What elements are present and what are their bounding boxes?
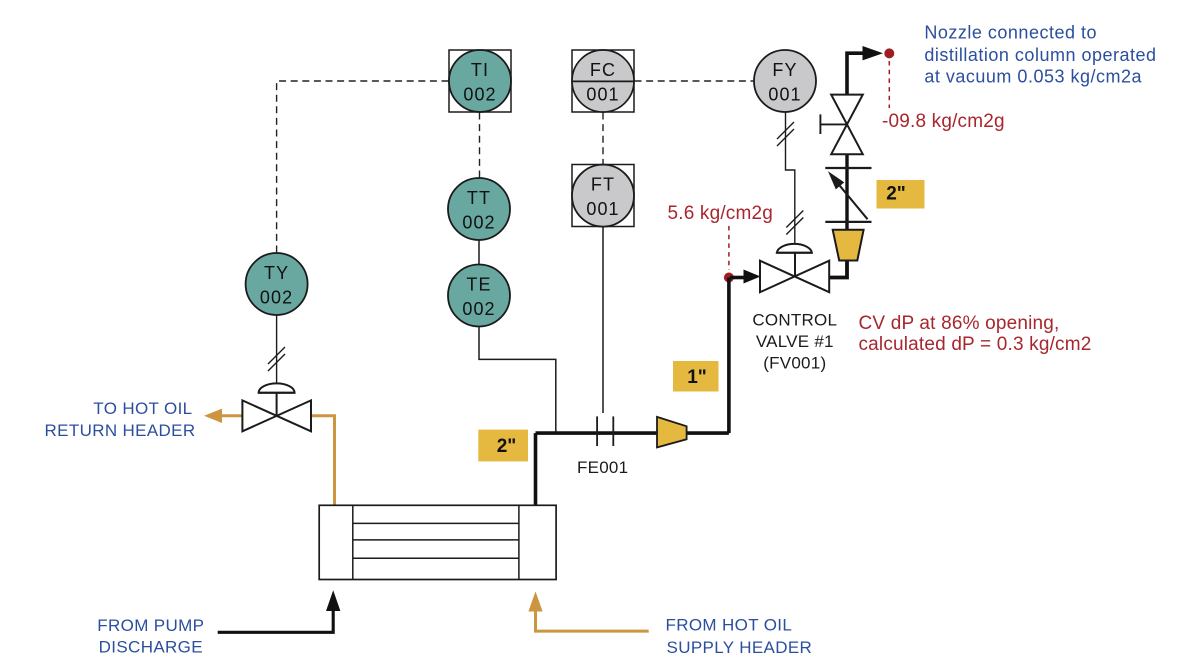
- gate valve V1 (vertical bowtie): [831, 95, 863, 155]
- TY valve actuator stem: [276, 393, 278, 416]
- svg-text:1": 1": [687, 367, 707, 388]
- instrument square TI002: [449, 50, 511, 112]
- svg-text:VALVE #1: VALVE #1: [756, 332, 834, 351]
- exchanger tube line 2: [353, 539, 519, 541]
- node upstream of FV001 (red dot): [724, 273, 734, 283]
- pipe horizontal FE001 run: [536, 431, 729, 435]
- size label 1in: [673, 361, 719, 392]
- size label 2in (left): [478, 430, 528, 462]
- wire TE002 to process pipe: [479, 327, 556, 433]
- FV001 actuator diaphragm: [777, 244, 812, 253]
- pipe reducer to FV001 outlet elbow: [829, 261, 847, 278]
- orifice flange FE001 right: [612, 416, 614, 446]
- flange tick upper (restrictor): [825, 167, 871, 169]
- svg-text:(FV001): (FV001): [763, 354, 826, 373]
- signal break slashes on FY stem upper: [777, 122, 794, 146]
- size label 2in (top right): [877, 180, 925, 209]
- flow nozzle (gold) on FE001 run: [657, 417, 687, 448]
- pump discharge pipe (black) with arrow: [218, 610, 334, 632]
- svg-text:FE001: FE001: [577, 458, 628, 477]
- exchanger tube line 3: [353, 557, 519, 559]
- signal stem FY001 to FV001 actuator: [786, 112, 795, 243]
- exchanger tube line 1: [353, 522, 519, 524]
- signal line FC001 to FY001 (dashed): [635, 80, 755, 82]
- svg-text:TO HOT OIL: TO HOT OIL: [93, 399, 192, 418]
- red dashed leader 5.6 kg/cm2g: [728, 226, 730, 270]
- pipe arrow into FV001: [730, 276, 745, 280]
- signal break slashes on TY stem: [268, 347, 285, 371]
- pipe riser 1in from FE001 run to FV001: [727, 278, 731, 434]
- svg-text:RETURN HEADER: RETURN HEADER: [45, 421, 196, 440]
- svg-text:calculated dP = 0.3 kg/cm2: calculated dP = 0.3 kg/cm2: [859, 334, 1092, 355]
- svg-text:CONTROL: CONTROL: [752, 311, 837, 330]
- orifice flange FE001 left: [596, 416, 598, 446]
- wire FT001 to orifice FE001: [602, 227, 604, 414]
- pipe drop to exchanger outlet: [534, 433, 538, 505]
- instrument square FC001: [572, 50, 634, 112]
- svg-text:SUPPLY HEADER: SUPPLY HEADER: [667, 638, 813, 657]
- instrument TY002: [246, 253, 308, 315]
- svg-text:2": 2": [886, 184, 906, 205]
- adjustable arrow through restrictor: [839, 185, 868, 219]
- TY valve actuator diaphragm: [259, 383, 295, 392]
- instrument square FT001: [572, 165, 634, 227]
- control valve FV001 body: [760, 261, 829, 293]
- signal line TI002 to left elbow (dashed): [277, 81, 449, 253]
- pipe from gate valve top to nozzle arrow: [847, 53, 864, 94]
- signal break slashes on FY stem lower: [786, 211, 803, 235]
- reducer (gold trapezoid): [833, 230, 864, 261]
- instrument TE002: [448, 265, 510, 327]
- svg-text:at vacuum 0.053 kg/cm2a: at vacuum 0.053 kg/cm2a: [924, 67, 1142, 87]
- arrowhead to nozzle: [863, 46, 884, 60]
- svg-text:Nozzle connected to: Nozzle connected to: [924, 22, 1097, 42]
- instrument TT002: [448, 178, 510, 240]
- TY control valve body: [242, 400, 311, 431]
- exchanger right tubesheet: [518, 505, 520, 579]
- heat exchanger E1 shell: [319, 505, 556, 579]
- signal stem TY002 to valve actuator: [276, 315, 278, 383]
- hot oil return pipe (orange) with arrow: [221, 414, 242, 417]
- hot oil pipe valve outlet to exchanger (orange): [311, 416, 335, 506]
- instrument FT001: [572, 165, 634, 227]
- svg-text:DISCHARGE: DISCHARGE: [99, 638, 203, 657]
- svg-text:5.6 kg/cm2g: 5.6 kg/cm2g: [668, 203, 773, 224]
- flange tick lower (restrictor): [825, 221, 871, 223]
- exchanger left tubesheet: [352, 505, 354, 579]
- svg-text:2": 2": [497, 436, 517, 457]
- instrument FC001: [572, 50, 634, 112]
- signal line FC001 down to FT001 (dashed): [602, 113, 604, 165]
- instrument FY001: [754, 50, 816, 112]
- FV001 actuator stem: [794, 253, 796, 277]
- node nozzle connection (red dot): [884, 48, 894, 58]
- instrument TI002: [449, 50, 511, 112]
- red dashed leader from nozzle dot: [888, 61, 890, 108]
- signal line TI002 down to TT002 (dashed): [479, 113, 481, 179]
- hot oil supply pipe (orange) with arrow: [536, 610, 649, 631]
- gate valve handle: [820, 114, 847, 134]
- wire TT002 to TE002: [478, 240, 480, 265]
- svg-text:FROM PUMP: FROM PUMP: [97, 616, 204, 635]
- svg-text:distillation column operated: distillation column operated: [924, 45, 1156, 65]
- svg-text:FROM HOT OIL: FROM HOT OIL: [666, 616, 793, 635]
- svg-text:CV dP at 86% opening,: CV dP at 86% opening,: [859, 313, 1060, 334]
- svg-text:-09.8 kg/cm2g: -09.8 kg/cm2g: [882, 111, 1005, 132]
- pipe gate valve bottom through restrictor to reducer: [845, 154, 848, 230]
